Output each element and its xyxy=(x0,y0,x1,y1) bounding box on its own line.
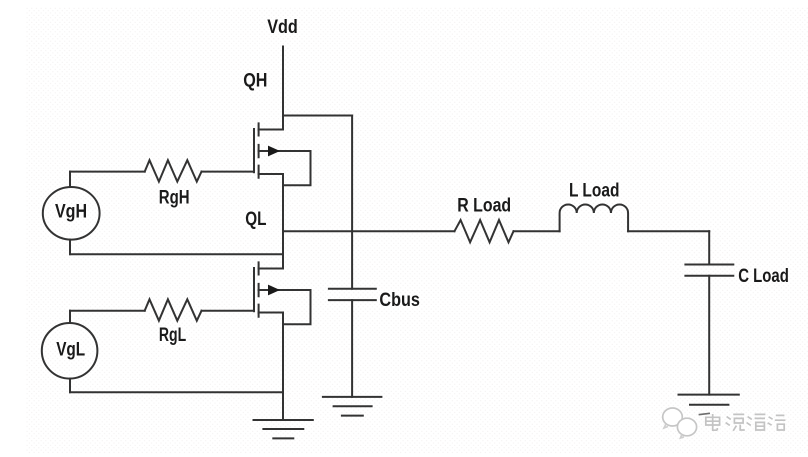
svg-text:Cbus: Cbus xyxy=(379,290,420,311)
transistor QH source stub xyxy=(259,173,283,175)
wire C Load bottom lead xyxy=(708,276,710,395)
wire VgH to RgH xyxy=(70,171,145,173)
transistor QL channel dashes xyxy=(258,262,260,316)
wire R Load to L Load xyxy=(514,230,560,232)
svg-text:VgL: VgL xyxy=(56,340,85,361)
transistor QH channel dashes xyxy=(258,123,260,177)
transistor QH drain stub xyxy=(259,129,283,131)
wire switch node to R Load xyxy=(283,230,455,232)
source VgH xyxy=(43,187,100,240)
wire L Load to C Load xyxy=(628,230,709,232)
wire switch node vertical (QH source to QL drain) xyxy=(282,174,284,269)
capacitor C Load top plate xyxy=(685,264,733,266)
watermark text 电源漫谈 xyxy=(706,414,786,431)
wire VgH return to switch node xyxy=(70,253,283,255)
svg-text:L Load: L Load xyxy=(569,180,620,201)
watermark logo chat bubbles xyxy=(663,408,697,438)
resistor RgL xyxy=(145,299,202,320)
wire VgL bottom lead xyxy=(69,379,71,393)
wire C Load top lead xyxy=(708,231,710,264)
ground (Cbus) xyxy=(323,397,382,416)
svg-text:QL: QL xyxy=(245,209,267,230)
wire RgH to QH gate xyxy=(202,171,255,173)
ground (C Load) xyxy=(679,395,739,405)
source VgL xyxy=(42,323,98,379)
transistor QL body-source loop xyxy=(283,290,311,324)
resistor RgH xyxy=(145,160,202,181)
wire QL source to ground xyxy=(282,313,284,421)
transistor QL body arrow xyxy=(268,285,280,296)
wire RgL to QL gate xyxy=(202,310,255,312)
wire VgL top lead xyxy=(69,311,71,323)
transistor QH body arrow xyxy=(268,146,280,157)
capacitor Cbus bottom plate xyxy=(329,299,376,301)
wire Vdd vertical xyxy=(282,47,284,130)
transistor QH body line xyxy=(259,150,311,152)
svg-text:C Load: C Load xyxy=(738,266,789,287)
transistor QL body line xyxy=(259,289,311,291)
transistor QL drain stub xyxy=(259,268,283,270)
inductor L Load xyxy=(560,204,628,231)
transistor QH body-source loop xyxy=(283,151,311,185)
wire VgL to RgL xyxy=(70,310,145,312)
svg-text:QH: QH xyxy=(243,71,267,92)
wire VgL return to QL source xyxy=(70,391,283,393)
svg-text:R Load: R Load xyxy=(457,196,511,217)
svg-text:Vdd: Vdd xyxy=(267,17,298,38)
svg-text:RgL: RgL xyxy=(159,325,187,346)
capacitor Cbus top plate xyxy=(329,288,376,290)
wire VgH top lead xyxy=(69,172,71,187)
ground (QL source) xyxy=(254,420,313,438)
transistor QH gate bar xyxy=(253,129,255,172)
wire VgH bottom lead xyxy=(69,240,71,255)
capacitor C Load bottom plate xyxy=(685,275,733,277)
svg-text:VgH: VgH xyxy=(55,202,87,223)
ground (C Load) third bar fragment xyxy=(699,413,709,414)
svg-text:RgH: RgH xyxy=(159,188,190,209)
transistor QL gate bar xyxy=(253,268,255,311)
wire Vdd branch to Cbus xyxy=(283,115,352,117)
wire Cbus bottom lead xyxy=(351,300,353,397)
transistor QL source stub xyxy=(259,312,283,314)
wire Cbus top lead xyxy=(351,116,353,289)
resistor R Load xyxy=(455,220,514,242)
